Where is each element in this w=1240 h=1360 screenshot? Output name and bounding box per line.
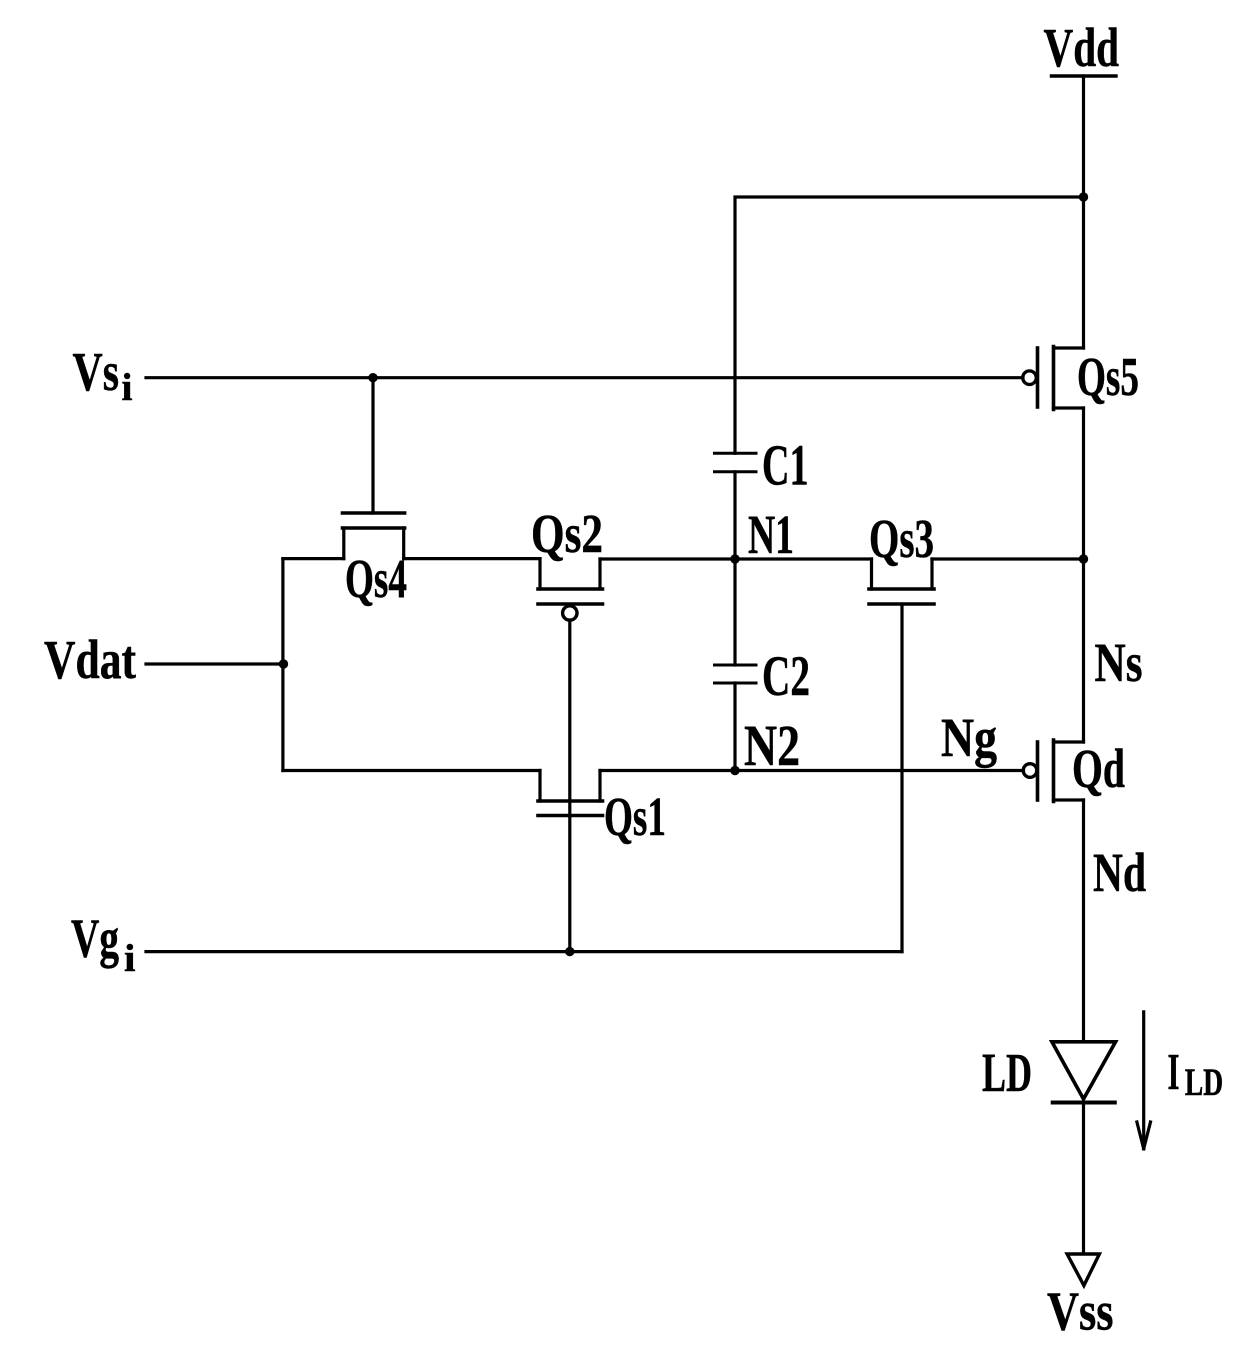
junction Vs_i / Qs4 gate branch xyxy=(368,373,377,382)
wire C-branch between N1 and C2 xyxy=(733,559,736,665)
transistor Qs4 xyxy=(343,513,408,609)
svg-text:Ns: Ns xyxy=(1095,632,1143,693)
wire N1 left segment (Qs4 drain to Qs2) xyxy=(404,557,540,560)
svg-text:N1: N1 xyxy=(748,504,794,565)
wire C1 bottom to N1 xyxy=(733,472,736,559)
wire top horizontal from C1 branch to Vdd rail xyxy=(735,197,1084,453)
wire N2 right segment to Qd gate (node Ng) xyxy=(600,769,1024,772)
net label Vs_i xyxy=(73,341,133,409)
wire Vdd vertical down to Qs5 source xyxy=(1082,76,1085,348)
wire Vdat horizontal xyxy=(146,662,283,665)
svg-text:Vdd: Vdd xyxy=(1044,17,1120,78)
svg-text:i: i xyxy=(122,366,133,409)
wire Vg_i horizontal xyxy=(146,950,902,953)
wire N1 middle segment (Qs2 to Qs3) xyxy=(600,557,872,560)
capacitor C2 xyxy=(715,645,811,708)
wire Qs3 gate vertical down to Vg_i xyxy=(900,604,903,952)
wire Nd vertical (Qd drain to LD anode) xyxy=(1082,800,1085,1042)
wire N2 left segment xyxy=(283,769,540,772)
svg-text:Nd: Nd xyxy=(1093,842,1146,903)
wire Ns vertical (N1 junction to Qd source) xyxy=(1082,559,1085,742)
svg-text:Qs1: Qs1 xyxy=(604,786,666,847)
wire Qs5 drain down to N1 junction xyxy=(1082,408,1085,559)
svg-text:Qs2: Qs2 xyxy=(531,503,603,564)
svg-text:Vdat: Vdat xyxy=(44,629,137,690)
transistor Qs3 xyxy=(869,508,934,604)
svg-text:I: I xyxy=(1168,1044,1180,1101)
laser diode LD xyxy=(982,1042,1116,1103)
svg-text:LD: LD xyxy=(982,1042,1032,1103)
junction N1 / Ns rail xyxy=(1079,554,1088,563)
svg-text:LD: LD xyxy=(1185,1061,1224,1104)
junction Vdat / left branch xyxy=(279,659,288,668)
svg-text:C1: C1 xyxy=(762,433,809,498)
svg-text:Ng: Ng xyxy=(941,707,997,768)
junction N2 / C-branch xyxy=(730,766,739,775)
junction Vdd rail / top wire xyxy=(1079,192,1088,201)
capacitor C1 xyxy=(715,433,809,498)
wire Qs4 gate vertical xyxy=(371,378,374,513)
svg-text:Vg: Vg xyxy=(71,908,119,969)
svg-text:Vss: Vss xyxy=(1047,1281,1114,1342)
svg-text:Qs5: Qs5 xyxy=(1077,346,1139,407)
transistor Qd xyxy=(1023,738,1125,802)
svg-text:N2: N2 xyxy=(744,713,800,778)
wire Qs2/Qs1 gate vertical down to Vg_i xyxy=(568,620,571,952)
svg-text:Qd: Qd xyxy=(1072,738,1125,799)
junction Vg_i / Qs1-Qs2 gate xyxy=(565,947,574,956)
power terminal Vss xyxy=(1047,1254,1114,1342)
svg-text:Vs: Vs xyxy=(73,341,120,402)
power terminal Vdd xyxy=(1044,17,1120,78)
wire Qs4 source horizontal to left branch xyxy=(283,557,344,560)
net label Vg_i xyxy=(71,908,136,981)
wire LD cathode to Vss terminal xyxy=(1082,1103,1085,1253)
current arrow I_LD xyxy=(1137,1012,1223,1149)
transistor Qs5 xyxy=(1023,346,1139,410)
wire Vs_i horizontal to Qs5 gate xyxy=(146,376,1023,379)
junction N1 / C-branch xyxy=(730,554,739,563)
transistor Qs2 xyxy=(531,503,603,620)
wire N1 right segment (Qs3 to Ns rail) xyxy=(932,557,1084,560)
svg-text:Qs3: Qs3 xyxy=(869,508,934,569)
transistor Qs1 xyxy=(538,771,666,848)
wire C2 bottom to N2 xyxy=(733,683,736,771)
svg-text:C2: C2 xyxy=(762,645,810,708)
wire left branch vertical (Qs4/Vdat/N2) xyxy=(281,559,284,771)
svg-text:Qs4: Qs4 xyxy=(345,548,407,609)
svg-text:i: i xyxy=(124,937,136,980)
